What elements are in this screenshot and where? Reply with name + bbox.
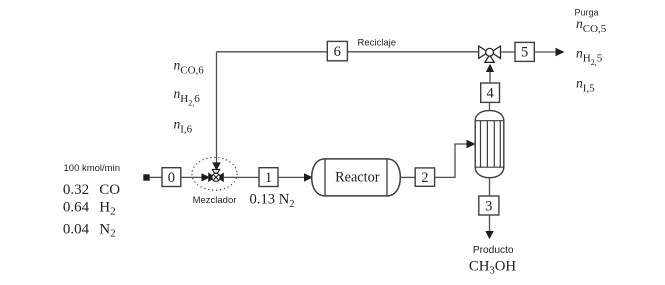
- mixer valve body left triangle: [208, 173, 216, 183]
- svg-text:0.32: 0.32: [63, 182, 89, 198]
- wire box 1 to reactor: [278, 176, 305, 178]
- product wire: [489, 215, 491, 232]
- svg-text:nH2,5: nH2,5: [576, 46, 603, 67]
- svg-text:0.64: 0.64: [63, 200, 90, 216]
- stream box 3: [479, 196, 499, 215]
- svg-text:nH2,6: nH2,6: [174, 86, 201, 107]
- recycle wire valve to mixer: [217, 51, 479, 53]
- svg-text:H2: H2: [99, 200, 115, 218]
- stream box 6: [327, 41, 347, 60]
- feed start node: [143, 174, 149, 180]
- svg-text:6: 6: [334, 44, 341, 60]
- wire separator top to box 4: [489, 102, 491, 111]
- svg-text:Reactor: Reactor: [335, 170, 380, 186]
- svg-text:Producto: Producto: [473, 245, 514, 256]
- svg-text:nI,6: nI,6: [174, 117, 193, 136]
- purge arrowhead: [556, 48, 565, 56]
- stream box 5: [515, 42, 534, 61]
- arrowhead into reactor: [304, 173, 313, 181]
- svg-text:N2: N2: [99, 222, 115, 240]
- svg-text:CO: CO: [99, 182, 120, 198]
- svg-text:1: 1: [265, 170, 272, 186]
- svg-text:Reciclaje: Reciclaje: [358, 37, 397, 48]
- wire mixer to box 1: [224, 176, 259, 178]
- svg-text:nCO,5: nCO,5: [576, 16, 607, 35]
- stream box 4: [481, 83, 500, 102]
- mixer dashed boundary: [192, 157, 237, 190]
- stream box 1: [259, 168, 278, 187]
- stream box 0: [162, 168, 181, 187]
- wire box 4 to purge valve: [489, 72, 491, 83]
- wire valve to box 5: [501, 51, 516, 53]
- arrowhead into mixer top: [212, 162, 221, 170]
- wire box 2 to separator: [434, 144, 467, 177]
- wire box 0 to mixer: [181, 176, 202, 178]
- separator internal tubes: [481, 121, 501, 168]
- product arrowhead: [485, 231, 493, 239]
- svg-text:0: 0: [168, 170, 175, 186]
- svg-text:nCO,6: nCO,6: [174, 57, 205, 76]
- feed table row CO: [63, 182, 120, 198]
- svg-text:0.04: 0.04: [63, 222, 90, 238]
- arrowhead into separator: [467, 140, 476, 148]
- wire feed to box 0: [150, 176, 162, 178]
- mixer valve bonnet: [212, 169, 219, 173]
- svg-text:2: 2: [421, 170, 428, 186]
- separator column shell: [475, 111, 504, 178]
- arrowhead into mixer left: [202, 173, 211, 181]
- svg-text:CH3OH: CH3OH: [469, 259, 516, 277]
- mixer valve ball with cross: [212, 173, 220, 181]
- svg-text:4: 4: [486, 85, 494, 101]
- feed table row N2: [63, 222, 116, 240]
- wire separator bottom to box 3: [489, 178, 491, 196]
- reactor vessel: [312, 159, 401, 196]
- wire reactor to box 2: [400, 176, 415, 178]
- svg-text:nI,5: nI,5: [576, 76, 595, 95]
- svg-text:0.13 N2: 0.13 N2: [250, 192, 295, 210]
- svg-text:Mezclador: Mezclador: [193, 195, 237, 206]
- svg-text:100 kmol/min: 100 kmol/min: [64, 163, 121, 174]
- feed table row H2: [63, 200, 116, 218]
- svg-text:5: 5: [521, 45, 528, 61]
- mixer valve body right triangle: [216, 173, 224, 183]
- svg-text:3: 3: [485, 198, 492, 214]
- stream box 2: [415, 168, 434, 186]
- arrowhead into purge valve: [486, 64, 494, 72]
- recycle wire into mixer top: [216, 52, 218, 163]
- purge wire: [534, 51, 556, 53]
- purge splitter valve: [479, 46, 501, 62]
